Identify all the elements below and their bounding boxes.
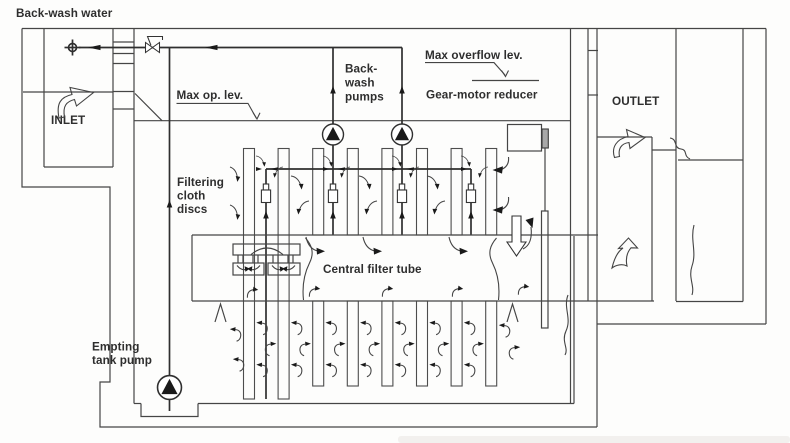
outlet channel floor xyxy=(597,136,652,138)
disc 1 (full) xyxy=(244,149,255,400)
flow arrows gap 2 below tube xyxy=(291,321,302,335)
backwash header box xyxy=(233,244,300,255)
central filter tube bottom xyxy=(192,300,654,302)
left outer wall xyxy=(22,29,597,428)
svg-text:pumps: pumps xyxy=(345,91,384,104)
disc 5 upper xyxy=(382,149,393,236)
svg-text:tank pump: tank pump xyxy=(92,354,152,367)
outer right wall xyxy=(765,29,767,325)
flow arrowhead left mid pipe xyxy=(205,45,218,50)
disc 4 upper xyxy=(347,149,358,236)
disc 3 upper xyxy=(313,149,324,236)
disc 6 lower xyxy=(417,301,428,386)
header dome xyxy=(251,248,283,255)
chamber water level xyxy=(678,159,743,161)
svg-text:Back-wash water: Back-wash water xyxy=(16,7,113,20)
arrows in distributor boxes xyxy=(237,266,247,270)
svg-text:Central filter tube: Central filter tube xyxy=(323,263,422,276)
flow arrows gap 5 below tube xyxy=(395,321,406,335)
max overflow level line xyxy=(472,80,539,82)
outlet spout shelf xyxy=(652,149,676,151)
flow arrowhead left near drain xyxy=(88,45,101,50)
outlet chamber bottom xyxy=(676,301,743,303)
back-wash pump 2 xyxy=(392,124,413,145)
outlet rise arrow xyxy=(612,238,638,268)
svg-text:Filtering: Filtering xyxy=(177,176,224,189)
disc 6 upper xyxy=(417,149,428,236)
flow arrows gap 7 below tube xyxy=(464,321,475,335)
disc 8 upper xyxy=(486,149,497,236)
arrows into suction pipe 1 xyxy=(256,156,266,167)
tube top flow arcs xyxy=(306,237,318,251)
hook arrow around weir xyxy=(523,227,531,249)
backwash pump riser 2 xyxy=(401,48,403,125)
arrows into suction pipe 4 xyxy=(461,156,471,167)
weir wall inner 2 xyxy=(573,236,575,404)
squiggle right of tube label xyxy=(490,238,499,300)
inner tank bottom xyxy=(134,403,141,405)
filter discs upper halves xyxy=(244,149,497,400)
step line right xyxy=(597,323,766,325)
inlet channel ladder right / inner left wall xyxy=(133,29,135,404)
svg-text:Back-: Back- xyxy=(345,63,377,76)
disc 7 upper xyxy=(451,149,462,236)
outlet chamber right wall xyxy=(742,29,744,302)
up arrowhead on empting pipe xyxy=(167,200,173,208)
central filter tube top xyxy=(192,234,598,236)
drive shaft xyxy=(542,211,549,328)
gear-motor reducer box xyxy=(508,125,542,152)
suction pipe 2 xyxy=(332,145,334,235)
flow arrows left of disc 1 xyxy=(230,327,241,341)
arrows into suction pipe 3 xyxy=(392,156,402,167)
central filter tube left end xyxy=(191,235,193,301)
header legs xyxy=(238,255,293,263)
disc 8 lower xyxy=(486,301,497,386)
empting tank pump xyxy=(158,376,182,400)
disc 3 lower xyxy=(313,301,324,386)
back-wash discharge pipe xyxy=(79,47,402,49)
flow arrows gap 1 below tube xyxy=(256,321,267,335)
hollow down arrow at weir xyxy=(507,216,526,256)
pump sump xyxy=(141,404,198,417)
suction manifold line xyxy=(266,168,471,170)
arrows into suction pipe 2 xyxy=(323,156,333,167)
ladder rungs xyxy=(113,41,134,43)
svg-text:OUTLET: OUTLET xyxy=(612,95,660,108)
up arrowheads on risers xyxy=(330,86,336,94)
svg-text:Max op. lev.: Max op. lev. xyxy=(177,89,244,102)
flow arrows gap 3 below tube xyxy=(326,321,337,335)
gap 368 arrows xyxy=(359,176,371,189)
chamber squiggle xyxy=(691,225,694,295)
outlet channel left wall xyxy=(596,29,598,428)
svg-text:discs: discs xyxy=(177,203,208,216)
distributor box right xyxy=(268,263,300,275)
disc 7 lower xyxy=(451,301,462,386)
distributor box left xyxy=(233,263,264,275)
waterfall squiggle xyxy=(670,138,690,159)
svg-text:Empting: Empting xyxy=(92,341,139,354)
flow arrows gap 4 below tube xyxy=(360,321,371,335)
valve xyxy=(146,37,163,53)
disc 5 lower xyxy=(382,301,393,386)
upper flow arrows left column xyxy=(227,167,242,182)
svg-text:cloth: cloth xyxy=(177,190,205,203)
drain symbol xyxy=(65,40,81,56)
inlet box left wall xyxy=(43,29,45,168)
support triangle left xyxy=(215,304,226,322)
svg-text:Gear-motor reducer: Gear-motor reducer xyxy=(426,89,538,102)
squiggle left of tube label xyxy=(303,238,312,300)
outlet chamber left wall xyxy=(675,29,677,302)
weir rungs xyxy=(588,50,598,52)
backwash pump riser 1 xyxy=(332,48,334,125)
back-wash pump 1 xyxy=(323,124,344,145)
suction pipe 3 xyxy=(401,145,403,235)
svg-text:INLET: INLET xyxy=(51,114,86,127)
faint gray band bottom right xyxy=(398,436,790,443)
inlet channel ladder left xyxy=(112,29,114,168)
main water level xyxy=(134,120,570,122)
inlet curved arrow xyxy=(58,88,93,119)
inlet water level xyxy=(23,91,113,93)
outlet curved arrow xyxy=(614,130,645,158)
suction pipe 1 xyxy=(265,169,267,399)
weir wall mid xyxy=(587,29,589,302)
water level drop diagonal xyxy=(135,94,162,121)
manifold arrowheads xyxy=(256,167,262,171)
up arrowheads below nozzles xyxy=(263,211,269,219)
gap 436 arrows xyxy=(427,176,439,189)
suction nozzles xyxy=(261,184,270,203)
weir wall inner xyxy=(570,29,572,404)
svg-text:wash: wash xyxy=(344,77,375,90)
suction pipe 4 xyxy=(470,169,472,235)
tank top edge xyxy=(22,28,766,30)
drive shaft line xyxy=(544,148,546,211)
support triangle right xyxy=(507,304,518,322)
svg-text:Max overflow lev.: Max overflow lev. xyxy=(425,49,523,62)
squiggle below tube near weir xyxy=(564,295,568,355)
inlet box bottom xyxy=(44,166,113,168)
right column arrows xyxy=(502,157,509,170)
disc 4 lower xyxy=(347,301,358,386)
arrows inside central tube xyxy=(247,286,259,300)
flow arrows gap 6 below tube xyxy=(429,321,440,335)
gap 300 arrows xyxy=(291,176,303,189)
disc 2 (full) xyxy=(278,149,289,400)
motor shaft bearing xyxy=(542,129,548,148)
flow arrows right of disc 8 below tube xyxy=(499,323,510,337)
empting pump riser pipe xyxy=(169,48,171,376)
outlet spout wall xyxy=(651,137,653,301)
